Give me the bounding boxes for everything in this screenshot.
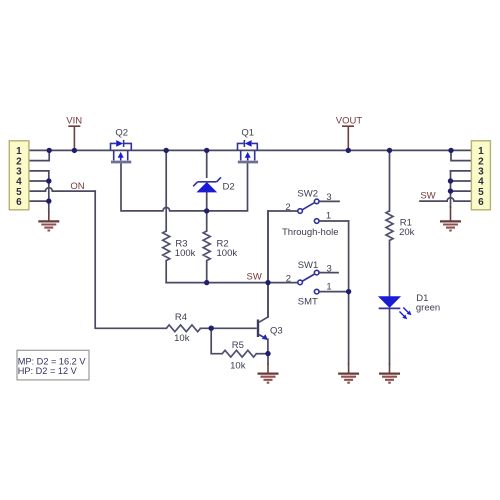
- svg-text:Q3: Q3: [270, 326, 283, 337]
- svg-text:SW: SW: [420, 190, 435, 201]
- svg-text:Through-hole: Through-hole: [282, 227, 339, 238]
- svg-text:10k: 10k: [174, 333, 190, 344]
- svg-text:100k: 100k: [175, 248, 196, 259]
- svg-text:SW2: SW2: [297, 188, 318, 199]
- svg-text:100k: 100k: [217, 248, 238, 259]
- svg-text:SW: SW: [247, 271, 262, 282]
- svg-text:SMT: SMT: [298, 296, 318, 307]
- svg-text:10k: 10k: [230, 361, 246, 372]
- svg-text:VOUT: VOUT: [336, 116, 363, 127]
- svg-text:Q1: Q1: [241, 127, 254, 138]
- svg-text:6: 6: [478, 197, 484, 208]
- svg-text:2: 2: [285, 202, 290, 213]
- svg-text:green: green: [416, 303, 440, 314]
- svg-text:1: 1: [326, 282, 331, 293]
- svg-text:VIN: VIN: [66, 116, 82, 127]
- svg-text:HP: D2 = 12 V: HP: D2 = 12 V: [18, 366, 78, 376]
- svg-text:D2: D2: [223, 182, 235, 193]
- svg-text:1: 1: [326, 210, 331, 221]
- svg-text:3: 3: [327, 263, 332, 274]
- svg-text:SW1: SW1: [298, 260, 319, 271]
- svg-text:6: 6: [16, 197, 22, 208]
- svg-text:20k: 20k: [399, 227, 415, 238]
- svg-text:ON: ON: [70, 181, 84, 192]
- svg-text:Q2: Q2: [115, 127, 128, 138]
- svg-text:3: 3: [326, 192, 331, 203]
- svg-text:R5: R5: [232, 340, 244, 351]
- svg-text:2: 2: [286, 274, 291, 285]
- svg-text:R4: R4: [175, 312, 187, 323]
